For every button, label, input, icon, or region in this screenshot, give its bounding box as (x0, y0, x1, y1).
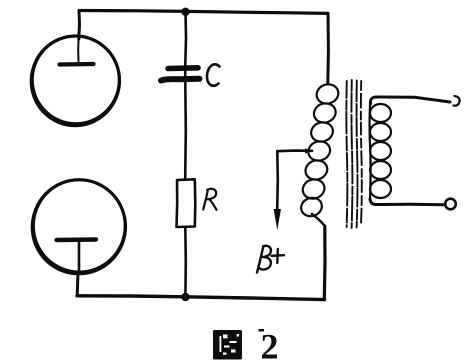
terminal hook top (454, 96, 460, 106)
transformer T1 core (346, 80, 361, 228)
terminal ring bottom (445, 199, 456, 210)
wire right side bottom (323, 226, 327, 300)
wire resistor to bottom rail (184, 227, 187, 296)
wire capacitor to resistor (184, 83, 187, 179)
transformer T1 secondary winding (370, 104, 371, 199)
electrode bar E2 (57, 237, 97, 242)
transformer T1 primary winding (299, 82, 341, 219)
wire left drop to pickup 1 (77, 11, 81, 40)
wire top rail (79, 11, 328, 14)
wire top to capacitor (184, 12, 187, 79)
label C (207, 64, 220, 85)
arrowhead B+ (274, 209, 281, 230)
label B+ (257, 246, 271, 273)
wire electrode stem E2 (78, 242, 81, 273)
capacitor C top plate (168, 65, 198, 71)
wire B+ tap horizontal (278, 149, 313, 152)
wire right side top (326, 14, 330, 85)
wire secondary bottom lead (370, 199, 444, 205)
wire secondary top lead (370, 97, 450, 104)
label R (203, 189, 216, 210)
resistor R (box) (177, 179, 196, 227)
transducer E1 (top circle) (32, 36, 120, 125)
wire bottom rail (77, 296, 325, 300)
electrode bar E1 (60, 62, 94, 67)
svg-text:2: 2 (261, 327, 279, 364)
junction blob tap (305, 149, 313, 154)
node top junction (181, 8, 189, 16)
wire electrode lead E1 (77, 39, 79, 62)
transducer E2 (bottom circle) (33, 180, 126, 274)
wire B+ tap vertical (276, 151, 279, 210)
node bottom junction (181, 293, 189, 301)
speck above 2 (259, 329, 265, 332)
wire primary bottom lead (312, 214, 325, 226)
caption glyph (figure character) (213, 330, 242, 360)
capacitor C bottom plate (161, 79, 200, 81)
wire pickup2 to bottom rail (76, 272, 80, 296)
